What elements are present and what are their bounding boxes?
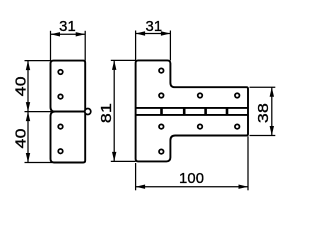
hinge barrel bottom line: [136, 114, 248, 116]
screw hole A4: [58, 149, 63, 154]
leaf split line: [51, 111, 86, 113]
screw hole B5 (strap top mid): [198, 93, 203, 98]
hinge knuckle pin circle: [85, 109, 91, 115]
dim 40 dimension line: [27, 61, 29, 163]
dim 31 (right view) extension line right: [169, 31, 171, 61]
dim 81 arrow top: [112, 60, 116, 70]
dim 81 arrow bottom: [112, 152, 116, 162]
dim 100 dimension line: [136, 186, 248, 188]
dim 31 (left view) extension line left: [50, 31, 52, 61]
dim 100 left extension line: [135, 163, 137, 190]
screw hole A1: [58, 70, 63, 75]
screw hole B8 (strap bottom right): [235, 124, 240, 129]
screw hole B7 (strap top right): [235, 93, 240, 98]
dim 31 (right view) extension line left: [135, 31, 137, 61]
svg-text:31: 31: [59, 19, 76, 35]
svg-text:40: 40: [13, 128, 29, 148]
dim 81 top extension line: [111, 59, 136, 61]
screw hole B2: [159, 93, 164, 98]
screw hole B1 (vertical leaf top): [159, 68, 164, 73]
dim 40 arrows middle: [26, 102, 30, 112]
knuckle joint 1: [160, 108, 163, 115]
dim 31 (left view) extension line right: [84, 31, 86, 61]
knuckle joint 4: [226, 108, 229, 115]
screw hole B3: [159, 124, 164, 129]
dim 40 arrow bottom (down): [26, 153, 30, 163]
dim 31 (left view) arrow right: [76, 32, 86, 36]
dim 81 dimension line: [113, 60, 115, 161]
dim 100 arrow left: [136, 185, 146, 189]
svg-text:38: 38: [255, 103, 271, 123]
dim 38 arrow top: [270, 87, 274, 97]
hinge barrel top line: [136, 107, 248, 109]
screw hole A2: [58, 94, 63, 99]
svg-text:40: 40: [13, 76, 29, 96]
dim 40 bottom extension line: [25, 162, 53, 164]
dim 40 top extension line: [25, 60, 51, 62]
svg-text:100: 100: [179, 171, 204, 187]
dim 40 arrow top (up): [26, 61, 30, 71]
screw hole B6 (strap bottom mid): [198, 124, 203, 129]
dim 31 (right view) dimension line: [136, 33, 171, 35]
hinge bottom leaf outline: [51, 112, 86, 163]
dim 38 dimension line: [271, 87, 273, 135]
T-plate outline: [136, 60, 248, 161]
hinge top leaf outline: [51, 61, 86, 112]
dim 100 right extension line: [247, 136, 249, 190]
dim 31 (left view) dimension line: [51, 33, 86, 35]
dim 31 (right view) arrow right: [161, 31, 171, 35]
knuckle joint 3: [204, 108, 207, 115]
dim 31 (right view) arrow left: [136, 31, 146, 35]
screw hole A3: [58, 124, 63, 129]
knuckle joint 2: [183, 108, 186, 115]
dim 38 top extension line: [250, 86, 276, 88]
dim 81 bottom extension line: [111, 160, 136, 162]
dim 100 arrow right: [239, 185, 249, 189]
dim 31 (left view) arrow left: [51, 32, 61, 36]
dim 40 middle extension line: [25, 111, 56, 113]
screw hole B4 (vertical leaf bottom): [159, 149, 164, 154]
dim 38 bottom extension line: [250, 135, 276, 137]
svg-text:81: 81: [98, 103, 114, 123]
dim 38 arrow bottom: [270, 126, 274, 136]
svg-text:31: 31: [145, 19, 162, 35]
